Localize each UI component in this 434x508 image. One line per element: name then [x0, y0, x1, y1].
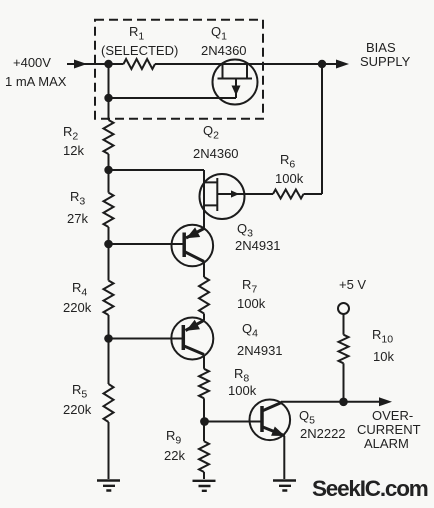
node gate return junction: [104, 94, 112, 102]
wire R10 to junction: [343, 363, 345, 402]
wire left vertical bus: [108, 64, 110, 479]
resistor R5: [104, 384, 114, 422]
wire bias stub: [322, 63, 338, 65]
node R4-R5 junction: [104, 334, 113, 343]
wire Q1 gate return: [109, 97, 237, 99]
input arrow: [74, 60, 87, 69]
ground right: [273, 481, 296, 491]
wire R9 leads: [203, 422, 205, 480]
wire bias vertical to R6: [244, 64, 323, 194]
svg-text:+5 V: +5 V: [339, 277, 366, 292]
wire R2 junction to Q2: [109, 170, 205, 229]
dashed select box: [95, 20, 263, 119]
svg-text:BIAS: BIAS: [366, 40, 396, 55]
svg-text:(SELECTED): (SELECTED): [101, 43, 178, 58]
resistor R3: [104, 193, 114, 227]
svg-text:SeekIC.com: SeekIC.com: [312, 476, 428, 501]
transistor Q3: [172, 225, 214, 277]
wire R8 to junction: [203, 398, 205, 421]
node R3-R4 junction: [104, 240, 113, 249]
wire Q3 base: [109, 243, 185, 245]
node main input junction: [104, 60, 112, 68]
svg-text:2N4931: 2N4931: [237, 343, 283, 358]
svg-text:27k: 27k: [67, 211, 88, 226]
svg-text:100k: 100k: [237, 296, 266, 311]
wire Q4 base: [109, 338, 184, 340]
ground middle: [193, 481, 216, 491]
node R8-R9 junction: [200, 417, 209, 426]
wire Q5 base: [204, 421, 262, 423]
resistor R1: [124, 59, 156, 69]
svg-text:2N4360: 2N4360: [201, 43, 247, 58]
svg-text:10k: 10k: [373, 349, 394, 364]
svg-text:SUPPLY: SUPPLY: [360, 54, 411, 69]
resistor R2: [104, 120, 114, 154]
resistor R7: [199, 277, 209, 314]
wire Q5 collector to alarm: [281, 401, 383, 403]
svg-text:2N4360: 2N4360: [193, 146, 239, 161]
svg-text:2N4931: 2N4931: [235, 238, 281, 253]
resistor R10: [339, 335, 349, 364]
resistor R4: [104, 281, 114, 316]
node R2-R3 junction: [104, 166, 112, 174]
svg-text:220k: 220k: [63, 300, 92, 315]
terminal +5V: [338, 303, 349, 314]
svg-text:12k: 12k: [63, 143, 84, 158]
resistor R9: [199, 441, 209, 472]
svg-text:100k: 100k: [275, 171, 304, 186]
wire +5V to R10: [343, 314, 345, 335]
ground left: [97, 481, 120, 491]
resistor R6: [273, 190, 304, 199]
svg-text:220k: 220k: [63, 402, 92, 417]
alarm arrow: [379, 397, 392, 406]
transistor Q2: [200, 174, 245, 219]
transistor Q5: [249, 400, 290, 480]
svg-text:1 mA MAX: 1 mA MAX: [5, 74, 67, 89]
node R10 junction: [339, 398, 348, 407]
svg-text:2N2222: 2N2222: [300, 426, 346, 441]
svg-text:ALARM: ALARM: [364, 436, 409, 451]
bias supply arrow: [336, 60, 349, 69]
node bias junction: [318, 60, 326, 68]
resistor R8: [199, 369, 209, 399]
svg-text:22k: 22k: [164, 448, 185, 463]
transistor Q4: [171, 314, 213, 369]
svg-text:+400V: +400V: [13, 55, 51, 70]
svg-text:OVER-: OVER-: [372, 408, 413, 423]
svg-text:100k: 100k: [228, 383, 257, 398]
wire main +400V line: [67, 63, 322, 65]
transistor Q1: [213, 60, 258, 105]
svg-text:CURRENT: CURRENT: [357, 422, 421, 437]
